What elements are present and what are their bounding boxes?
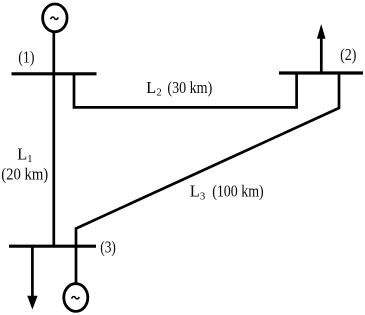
svg-text:(30 km): (30 km): [167, 78, 212, 97]
svg-text:(2): (2): [340, 45, 356, 64]
svg-text:(3): (3): [100, 238, 116, 257]
svg-text:2: 2: [156, 87, 161, 99]
svg-text:(1): (1): [18, 47, 34, 66]
svg-text:(100 km): (100 km): [212, 181, 264, 200]
svg-text:L: L: [146, 78, 156, 97]
svg-text:1: 1: [27, 153, 32, 165]
svg-text:L: L: [17, 144, 27, 163]
svg-text:(20 km): (20 km): [1, 164, 48, 183]
svg-text:L: L: [190, 181, 200, 200]
svg-text:3: 3: [200, 191, 205, 203]
